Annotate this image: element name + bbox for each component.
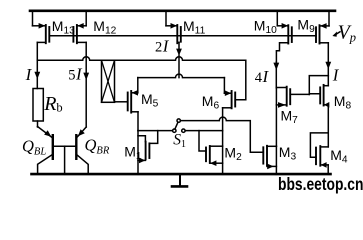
wire Rb to QBL emitter — [37, 121, 39, 127]
watermark bbs.eetop.cn — [278, 175, 363, 194]
current arrow 5I — [83, 57, 89, 127]
label Rb — [43, 93, 62, 115]
bipolar QBR — [76, 127, 88, 174]
label M5 — [141, 91, 159, 110]
label QBL — [22, 137, 46, 158]
ground — [172, 175, 187, 186]
transistor M5 — [128, 78, 138, 131]
switch S1 — [173, 119, 185, 132]
input Vp arrow — [332, 32, 340, 37]
bipolar QBL — [38, 127, 53, 175]
svg-text:4I: 4I — [255, 67, 270, 86]
tail wire of diff pair — [138, 74, 225, 78]
label 4I — [255, 67, 270, 86]
transistor M11 — [166, 11, 181, 78]
node L wire W1 — [138, 130, 173, 132]
label M1 — [124, 143, 142, 162]
label M9 — [297, 17, 315, 35]
common gate bias line (Vp net) — [49, 35, 316, 37]
chopper box — [102, 60, 115, 102]
transistor M2 — [199, 131, 223, 166]
VDD top rail — [30, 10, 335, 13]
label S1 — [173, 132, 186, 151]
current arrow I (right) — [325, 62, 331, 76]
label I right — [332, 66, 340, 85]
wire box to M5 gate — [115, 101, 128, 103]
label M13 — [52, 18, 75, 37]
node R wire W2 — [185, 130, 222, 132]
current arrow 4I — [273, 62, 279, 88]
transistor M8 — [309, 76, 329, 108]
svg-text:bbs.eetop.cn: bbs.eetop.cn — [278, 175, 363, 194]
label M7 — [281, 108, 299, 127]
label M12 — [93, 18, 116, 37]
transistor M12 — [73, 11, 86, 57]
label M3 — [279, 144, 297, 163]
transistor M13 — [33, 11, 50, 61]
resistor Rb — [33, 89, 43, 122]
label M10 — [254, 17, 277, 36]
label M2 — [224, 145, 242, 164]
label I left — [25, 65, 33, 84]
transistor M1 — [138, 131, 158, 175]
base wire QBL-QBR and drop to rail — [53, 146, 77, 174]
label Vp — [338, 23, 356, 45]
label M6 — [202, 93, 220, 112]
node A wire (M13 drain to M6 gate) with hops — [37, 57, 246, 100]
transistor M10 — [276, 11, 291, 62]
svg-text:2I: 2I — [155, 37, 170, 56]
transistor M9 — [316, 11, 329, 62]
label M8 — [334, 93, 352, 112]
svg-text:5I: 5I — [68, 64, 83, 83]
transistor M6 — [223, 78, 236, 175]
label 2I — [155, 37, 170, 56]
transistor M4 — [310, 105, 328, 173]
current arrow I (left, into Rb) — [34, 60, 40, 88]
current arrow 2I — [176, 49, 182, 56]
transistor M7 — [276, 87, 309, 147]
ground rail — [32, 173, 331, 176]
transistor M3 — [263, 146, 276, 175]
label QBR — [85, 136, 110, 157]
wire from switch B contact to M3 gate (with hop over M6 drain) — [180, 117, 263, 152]
label 5I — [68, 64, 83, 83]
label M11 — [183, 18, 206, 37]
label M4 — [330, 147, 348, 166]
